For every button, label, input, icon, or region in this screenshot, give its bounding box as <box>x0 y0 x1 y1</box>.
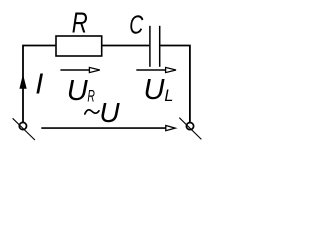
svg-text:U: U <box>144 74 166 106</box>
svg-text:R: R <box>87 88 95 106</box>
svg-text:C: C <box>129 10 143 40</box>
svg-text:L: L <box>164 87 173 105</box>
svg-text:R: R <box>72 8 88 40</box>
svg-text:I: I <box>35 69 43 101</box>
svg-text:U: U <box>99 97 120 128</box>
svg-text:U: U <box>67 75 89 107</box>
